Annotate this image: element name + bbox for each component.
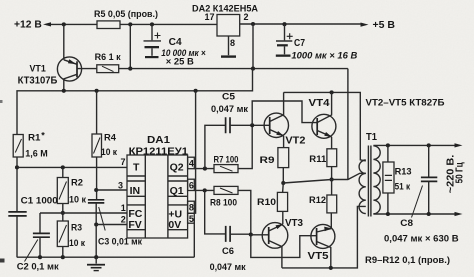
capacitor C1 1000 <box>8 195 57 257</box>
wire VT3/VT5 collectors bottom line to transformer <box>282 206 366 268</box>
node VT4 collector <box>330 90 334 94</box>
wire IN lead to DA1 pin 3 <box>96 189 127 191</box>
svg-text:R12: R12 <box>309 195 326 206</box>
+12V input terminal with arrow <box>14 19 97 30</box>
svg-text:C1 1000: C1 1000 <box>21 195 58 206</box>
node C8 top <box>427 143 431 147</box>
svg-text:10 к: 10 к <box>101 147 117 158</box>
wire R9 bottom to ballast node <box>282 168 284 183</box>
node VT1 collector on bus A <box>62 89 66 93</box>
svg-text:*: * <box>41 131 45 141</box>
wire R4 bottom through bus B to IN node and C3 <box>96 157 98 200</box>
resistor R2 10к <box>57 167 86 205</box>
node C7 tap <box>282 22 286 26</box>
wire VT1 emitter riser <box>63 24 65 59</box>
label ~220V 50Hz rotated <box>446 154 466 193</box>
node Q1/C6 junction <box>203 188 207 192</box>
svg-text:R9: R9 <box>260 155 275 166</box>
wire C5 branch from Q2 node <box>205 125 226 168</box>
wire R2-R3 link <box>62 204 64 222</box>
svg-text:R13: R13 <box>395 167 412 178</box>
ground bus bottom left <box>17 256 194 258</box>
right winding (secondary 220V) <box>373 146 380 214</box>
node R11/R12 ballast <box>330 177 334 181</box>
resistor R7 100 <box>214 155 239 173</box>
svg-text:× 25 В: × 25 В <box>166 57 194 68</box>
wire R1 bottom to bus B and C1 <box>16 157 18 212</box>
node +5V bus junction <box>251 67 255 71</box>
wire secondary output top line with arrow <box>373 144 455 146</box>
svg-text:R2: R2 <box>71 177 83 188</box>
svg-text:6: 6 <box>189 180 194 190</box>
svg-text:VT2: VT2 <box>285 135 305 146</box>
core <box>368 146 371 217</box>
resistor R4 10к <box>92 91 117 158</box>
svg-text:+5 В: +5 В <box>373 20 396 31</box>
node R13 bottom <box>386 212 390 216</box>
ground bar under DA2 <box>221 55 236 57</box>
left winding (primary, tapped) <box>359 160 366 214</box>
wire VT2 emitter to R9 <box>283 136 285 148</box>
wire VT3 emitter to R10 <box>282 211 284 224</box>
wire ballast line to transformer tap <box>283 173 366 183</box>
wire C6 right to VT3 base node <box>230 233 251 235</box>
node R6 output junction <box>128 67 132 71</box>
svg-text:R1: R1 <box>28 133 41 144</box>
svg-text:C7: C7 <box>294 38 305 49</box>
node VT3 base / R8 / C6 <box>249 232 253 236</box>
wire Q1 pin 6 lead <box>194 189 214 191</box>
pin number cells right side <box>188 157 195 169</box>
svg-text:R5 0,05 (пров.): R5 0,05 (пров.) <box>94 9 158 20</box>
ground symbol <box>87 257 105 271</box>
svg-text:1: 1 <box>121 203 126 213</box>
resistor R10 <box>257 192 288 211</box>
svg-text:2: 2 <box>121 215 126 225</box>
wire bus B (T net) to DA1 pin 7 <box>17 166 127 168</box>
resistor R11 <box>309 149 336 167</box>
wire Q2 pin 4 lead <box>194 168 214 170</box>
wire VT5 emitter to R12 <box>330 213 332 229</box>
node R2 top on bus B <box>61 165 65 169</box>
transistor VT5 КТ827Б <box>308 224 335 268</box>
svg-text:0V: 0V <box>168 219 181 231</box>
node R3 ground <box>61 255 65 259</box>
capacitor C6 0,047мк <box>210 226 246 273</box>
svg-text:C6: C6 <box>222 246 234 257</box>
wire DA2 pin8 ground stub <box>228 36 230 55</box>
wire +12V line from R5 to DA2 input <box>120 23 217 25</box>
wire FC lead with C2 branch <box>40 212 127 214</box>
wire VT1 base lead <box>77 68 97 70</box>
wire R11 bottom to ballast node <box>331 167 333 180</box>
svg-text:VT3: VT3 <box>285 218 303 229</box>
svg-text:Т1: Т1 <box>366 132 377 143</box>
svg-text:8: 8 <box>230 38 235 48</box>
resistor R12 <box>309 195 337 213</box>
svg-text:3: 3 <box>118 181 123 191</box>
svg-text:+12 В: +12 В <box>14 19 42 30</box>
node FV junction on C3 riser <box>94 222 98 226</box>
resistor R8 100 <box>210 186 238 208</box>
wire FV lead to DA1 pin 2 <box>96 224 127 226</box>
wire R10 top to ballast node <box>282 183 285 192</box>
svg-text:2: 2 <box>244 12 249 22</box>
capacitor C7 1000mk electrolytic with ground bar <box>276 24 358 61</box>
svg-text:R6 1 к: R6 1 к <box>95 52 121 63</box>
resistor R1* 1,6М <box>13 131 48 160</box>
wire collectors bus VT2/VT4 <box>284 92 366 161</box>
node: C4 tap on +12V <box>150 22 154 26</box>
svg-text:0,047 мк: 0,047 мк <box>211 104 248 115</box>
wire C5 right to VT2 base node <box>230 124 270 126</box>
svg-text:КТ3107Б: КТ3107Б <box>18 75 58 86</box>
wire R12 top to ballast node <box>331 180 333 196</box>
wire bus A (+U supply bus) <box>17 69 253 134</box>
capacitor C4 10000mk electrolytic with ground bar <box>144 24 207 67</box>
svg-text:10 к: 10 к <box>69 195 86 206</box>
capacitor C3 0,01мк <box>88 200 142 257</box>
svg-text:FV: FV <box>128 219 141 231</box>
svg-text:1,6 М: 1,6 М <box>25 148 48 159</box>
edge mark left middle <box>0 100 3 103</box>
wire VT3 base lead <box>251 234 269 236</box>
wire R8 right to riser down to VT3 base node <box>238 190 251 234</box>
svg-text:R4: R4 <box>104 133 117 144</box>
node VT5 collector <box>329 266 333 270</box>
transistor VT4 КТ827Б <box>309 92 336 138</box>
transistor VT1 КТ3107Б (PNP) <box>18 57 82 91</box>
svg-text:R8 100: R8 100 <box>210 198 237 209</box>
node Q2/C5 junction <box>203 167 207 171</box>
resistor R5 0,05 (пров.) <box>94 9 158 29</box>
wire secondary output bottom line with arrow <box>373 213 455 215</box>
svg-text:Q2: Q2 <box>170 162 184 174</box>
transistor VT2 КТ827Б <box>264 92 306 146</box>
node R2/R3/FC junction <box>61 211 65 215</box>
node C8 bottom <box>427 212 431 216</box>
wire DA1 0V pin 5 riser down to ground bus <box>193 218 195 257</box>
node R4 riser on bus A <box>95 89 99 93</box>
svg-text:VT5: VT5 <box>308 251 329 262</box>
svg-text:R11: R11 <box>309 154 327 165</box>
svg-text:VT2–VT5 КТ827Б: VT2–VT5 КТ827Б <box>366 98 445 109</box>
svg-text:C2 0,1 мк: C2 0,1 мк <box>17 262 59 273</box>
svg-text:7: 7 <box>121 157 126 167</box>
svg-text:0,047 мк × 630 В: 0,047 мк × 630 В <box>384 233 459 244</box>
svg-text:0,047 мк: 0,047 мк <box>210 262 246 273</box>
svg-text:R10: R10 <box>257 197 276 208</box>
svg-text:IN: IN <box>130 185 141 197</box>
wire riser from +12V down to R6 bus <box>129 24 131 68</box>
node DA1 +U riser on bus A <box>194 89 198 93</box>
node VT2 base / R7 / C5 <box>250 123 254 127</box>
IC DA1 КР1211ЕУ1 <box>118 135 194 238</box>
wire VT5 base link from node down and around <box>251 235 317 258</box>
+5V output arrow and label <box>361 23 369 27</box>
capacitor C8 0,047мк 630В <box>384 145 459 244</box>
svg-text:КР1211ЕУ1: КР1211ЕУ1 <box>129 146 189 158</box>
svg-text:8: 8 <box>189 203 194 213</box>
node C2 ground <box>38 255 42 259</box>
svg-text:50 Гц: 50 Гц <box>454 162 465 184</box>
svg-text:10 к: 10 к <box>69 238 85 249</box>
resistor R3 10к <box>57 221 85 249</box>
wire VT4 emitter to R11 <box>331 137 333 149</box>
svg-text:Q1: Q1 <box>170 185 184 197</box>
resistor R6 1к <box>95 52 121 73</box>
wire long top bus from R6 to transformer riser <box>119 68 348 70</box>
wire R3 bottom to ground bus <box>62 247 64 258</box>
wire C6 branch from Q1 node <box>205 190 226 234</box>
node bus B left <box>15 165 19 169</box>
node IN junction <box>94 188 98 192</box>
svg-text:C5: C5 <box>222 91 236 102</box>
wire VT4 base wire from VT2 base node <box>252 101 317 125</box>
wire DA1 +U pin 8 riser up to bus A <box>194 91 195 213</box>
svg-text:C8: C8 <box>400 218 413 229</box>
svg-text:4: 4 <box>189 158 194 168</box>
node: VT1 emitter tap on +12V <box>62 22 66 26</box>
svg-text:C4: C4 <box>169 37 182 48</box>
svg-text:DA1: DA1 <box>147 135 170 146</box>
wire L1 riser from top bus to ballast line <box>347 69 349 180</box>
wire +5V output line <box>240 23 362 25</box>
svg-text:VT4: VT4 <box>309 98 330 109</box>
node: R6 riser junction on +12V <box>128 22 132 26</box>
capacitor C2 0,1мк <box>17 233 59 272</box>
node C3 ground <box>94 255 98 259</box>
node R13 top <box>386 143 390 147</box>
edge mark bottom-left <box>0 259 5 263</box>
wire riser +5V down to bus <box>252 24 254 69</box>
svg-text:51 к: 51 к <box>395 181 411 192</box>
resistor R13 51к <box>383 145 412 214</box>
wire R7 right to riser up to VT2 base node <box>238 125 252 168</box>
svg-text:T: T <box>133 162 140 174</box>
svg-text:5: 5 <box>189 214 194 224</box>
svg-text:1000 мк × 16 В: 1000 мк × 16 В <box>291 51 357 62</box>
voltage regulator DA2 К142ЕН5А <box>192 4 258 48</box>
svg-text:R3: R3 <box>71 223 82 234</box>
svg-text:VT1: VT1 <box>30 63 47 74</box>
transformer T1 <box>359 132 380 217</box>
capacitor C5 0,047мк <box>211 91 248 133</box>
node R9/R10 ballast <box>281 181 285 185</box>
resistor R9 <box>260 148 289 168</box>
svg-text:R9–R12 0,1 (пров.): R9–R12 0,1 (пров.) <box>365 255 450 266</box>
node +5V riser junction <box>251 22 255 26</box>
transistor VT3 КТ827Б <box>262 218 303 268</box>
svg-text:17: 17 <box>205 12 215 22</box>
